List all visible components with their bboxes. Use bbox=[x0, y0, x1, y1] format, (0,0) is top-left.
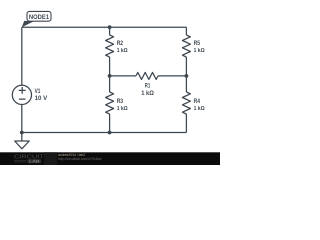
svg-text:R5: R5 bbox=[194, 40, 201, 47]
svg-text:R3: R3 bbox=[117, 98, 124, 105]
svg-text:1 kΩ: 1 kΩ bbox=[117, 48, 128, 54]
svg-text:1 kΩ: 1 kΩ bbox=[117, 106, 128, 112]
svg-text:R4: R4 bbox=[194, 98, 201, 105]
svg-text:V1: V1 bbox=[35, 88, 41, 95]
svg-text:10 V: 10 V bbox=[35, 95, 48, 102]
svg-text:http://circuitlab.com/c/7fc3dw: http://circuitlab.com/c/7fc3dw bbox=[58, 157, 102, 161]
svg-text:1 kΩ: 1 kΩ bbox=[141, 90, 154, 97]
svg-text:LAB: LAB bbox=[29, 159, 40, 163]
svg-text:R1: R1 bbox=[145, 83, 151, 90]
svg-text:R2: R2 bbox=[117, 40, 124, 47]
svg-text:1 kΩ: 1 kΩ bbox=[194, 48, 205, 54]
svg-text:NODE1: NODE1 bbox=[29, 14, 49, 21]
svg-text:1 kΩ: 1 kΩ bbox=[194, 106, 205, 112]
